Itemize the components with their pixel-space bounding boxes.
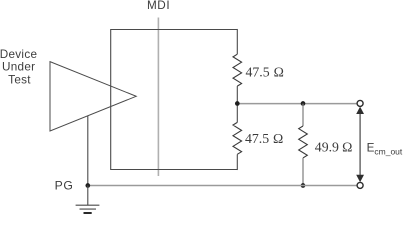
PG bottom wire: [88, 185, 357, 187]
wire: R2 bottom to box bottom edge: [236, 154, 238, 170]
svg-text:Ecm_out: Ecm_out: [367, 141, 403, 156]
DUT box top edge: [111, 29, 238, 31]
wire: triangle bottom edge down to PG node: [87, 116, 89, 186]
node dot at R1/R2 junction: [235, 101, 240, 106]
E_cm_out dimension line: [359, 112, 361, 177]
ground bar 3: [84, 212, 92, 214]
svg-text:Device: Device: [0, 48, 37, 61]
svg-text:MDI: MDI: [147, 0, 170, 12]
wire: branch bottom lead: [302, 158, 304, 186]
MDI net line (gray vertical): [157, 18, 159, 177]
resistor R3 49.9 ohm: [299, 126, 308, 158]
svg-text:PG: PG: [55, 179, 74, 193]
arrowhead down: [356, 175, 364, 182]
svg-text:Ω: Ω: [273, 131, 283, 146]
node dot at 49.9 branch bottom: [301, 183, 306, 188]
svg-text:Ω: Ω: [274, 64, 284, 79]
wire: branch top lead: [302, 104, 304, 126]
wire: junction node line to terminals: [237, 103, 357, 105]
svg-text:49.9: 49.9: [315, 140, 339, 155]
DUT box left edge: [110, 29, 112, 170]
arrowhead up: [356, 107, 364, 114]
ground bar 1: [76, 204, 100, 206]
svg-text:47.5: 47.5: [245, 131, 269, 146]
terminal circle bottom: [357, 182, 363, 188]
ground stem: [87, 185, 89, 205]
ground bar 2: [80, 208, 97, 210]
svg-text:47.5: 47.5: [246, 64, 270, 79]
node dot at PG: [85, 183, 90, 188]
svg-text:Ω: Ω: [342, 140, 352, 155]
wire: box right edge upper segment: [236, 29, 238, 54]
wire: R1 bottom to junction to R2 top: [236, 86, 238, 122]
DUT box bottom edge: [111, 169, 238, 171]
terminal circle top: [357, 100, 363, 106]
node dot at 49.9 branch top: [301, 101, 306, 106]
svg-text:Under: Under: [2, 61, 35, 74]
resistor R2 47.5 ohm (lower): [233, 122, 242, 154]
amplifier triangle (Device Under Test): [50, 62, 136, 131]
resistor R1 47.5 ohm (upper): [233, 54, 242, 86]
svg-text:Test: Test: [8, 73, 31, 86]
